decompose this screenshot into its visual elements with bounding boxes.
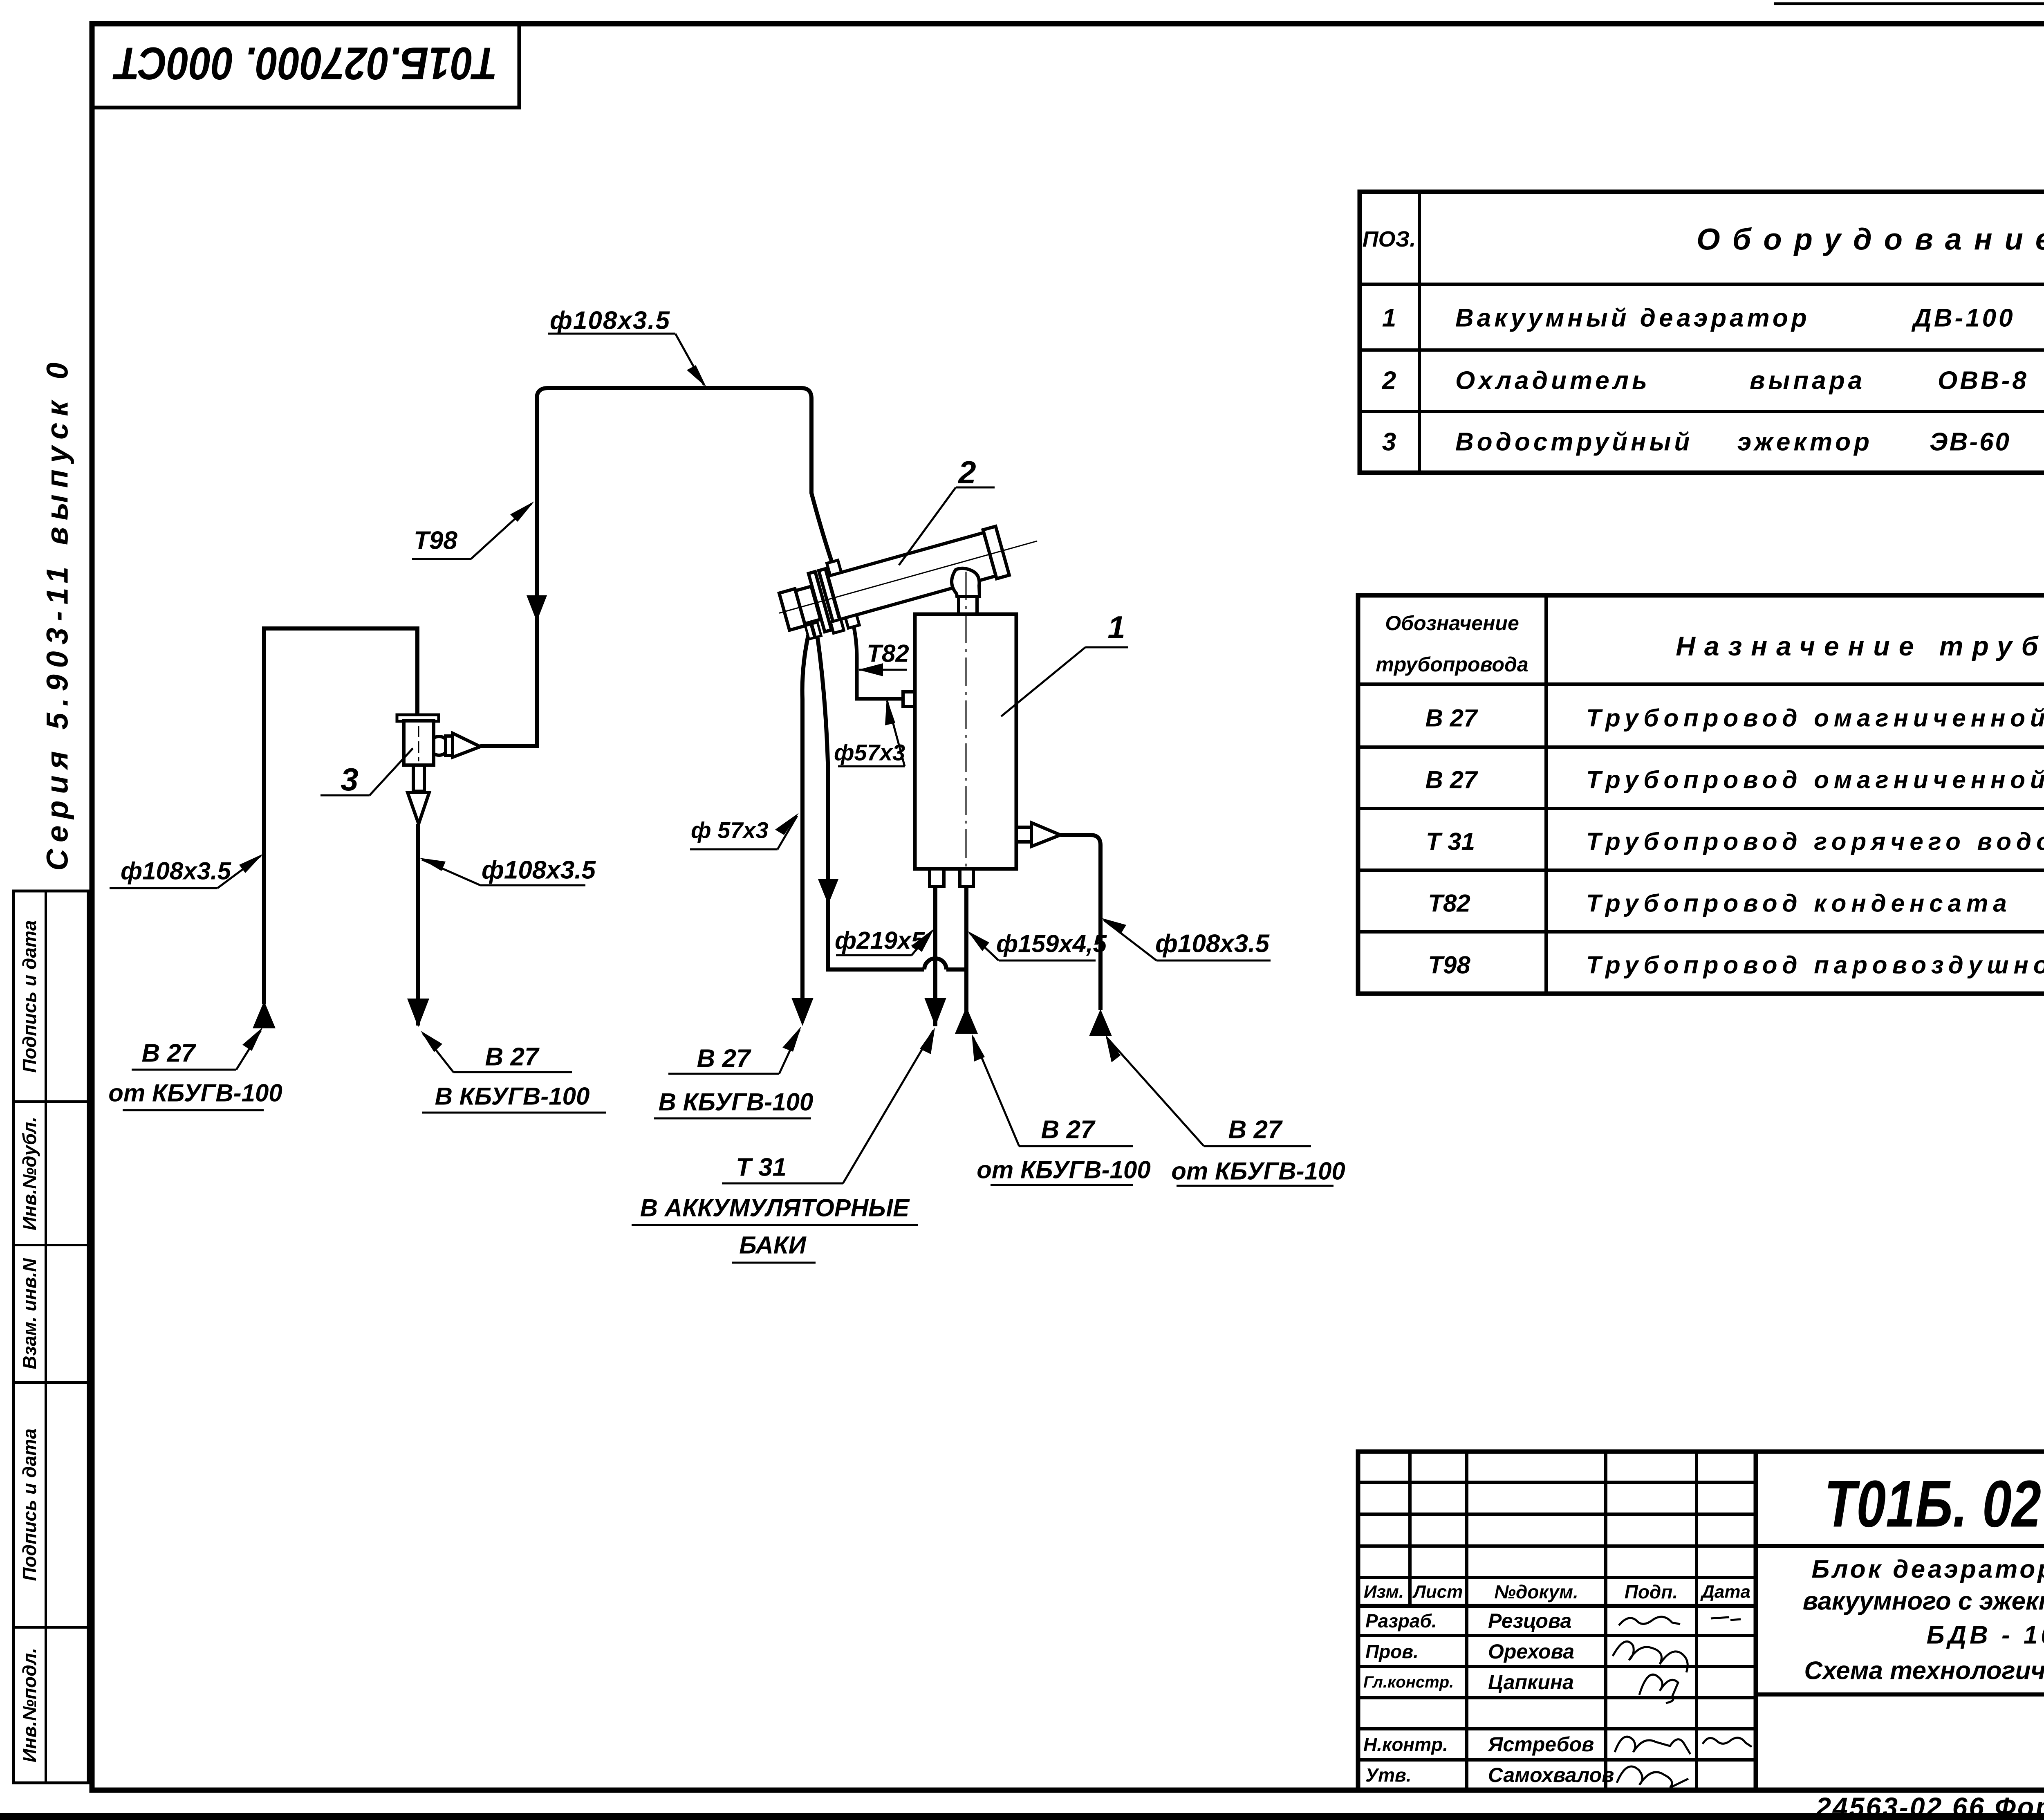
- cooler U2 bottom stub 2 (T82): [845, 615, 859, 628]
- arrow up flow B27 inlet: [253, 1001, 276, 1028]
- svg-text:вакуумного с эжектором: вакуумного с эжектором: [1803, 1587, 2044, 1616]
- svg-text:Трубопровод паровоздушной с: Трубопровод паровоздушной смеси: [1586, 952, 2044, 979]
- svg-text:В КБУГВ-100: В КБУГВ-100: [435, 1083, 590, 1110]
- signature n kontr: [1615, 1737, 1690, 1754]
- svg-text:Резцова: Резцова: [1488, 1609, 1571, 1632]
- svg-text:Трубопровод горячего водосна: Трубопровод горячего водоснабжения: [1586, 828, 2044, 855]
- svg-text:Разраб.: Разраб.: [1365, 1610, 1437, 1631]
- svg-text:ф219x5: ф219x5: [835, 927, 926, 954]
- arrow up flow f159: [955, 1007, 978, 1034]
- svg-text:Блок деаэратора: Блок деаэратора: [1811, 1555, 2044, 1584]
- deaerator U1 bottom stub right: [960, 869, 973, 886]
- svg-text:Т82: Т82: [1428, 890, 1470, 917]
- wire B27 vessel bottom right pipe (f159x4.5): [964, 886, 968, 1027]
- svg-text:Подпись и дата: Подпись и дата: [19, 1429, 40, 1581]
- svg-text:1: 1: [1107, 609, 1125, 645]
- wire f57x3 cooler outlet joining f159 line (line x=2026): [818, 638, 924, 969]
- deaerator U1 centerline dash-dot: [966, 572, 967, 885]
- svg-text:ф 57x3: ф 57x3: [691, 817, 769, 843]
- svg-text:Дата: Дата: [1700, 1582, 1750, 1602]
- wire B27 cooler drain left (line x=1963): [802, 632, 809, 1004]
- svg-text:Оборудование: Оборудование: [1697, 222, 2044, 256]
- svg-text:Подп.: Подп.: [1625, 1581, 1678, 1602]
- cooler U2 group (rotated): [770, 507, 1046, 646]
- svg-text:от КБУГВ-100: от КБУГВ-100: [1171, 1158, 1345, 1185]
- svg-text:трубопровода: трубопровода: [1376, 653, 1528, 676]
- svg-text:Т98: Т98: [1428, 952, 1470, 979]
- svg-text:В 27: В 27: [142, 1039, 196, 1068]
- arrow down flow mid f57 line: [818, 879, 838, 904]
- svg-text:от КБУГВ-100: от КБУГВ-100: [108, 1079, 282, 1107]
- deaerator U1 vessel: [915, 614, 1016, 869]
- svg-text:3: 3: [1382, 428, 1396, 456]
- svg-text:Водоструйный: Водоструйный: [1455, 428, 1693, 456]
- svg-text:3: 3: [341, 761, 358, 797]
- svg-text:1: 1: [1382, 304, 1396, 332]
- wire T82 condensate from cooler to deaerator: [854, 628, 904, 699]
- deaerator U1 bottom stub left: [930, 869, 944, 886]
- svg-text:ПОЗ.: ПОЗ.: [1363, 227, 1416, 251]
- cooler U2 drain stub a: [805, 624, 815, 640]
- svg-text:эжектор: эжектор: [1737, 428, 1873, 456]
- ejector U3 body: [404, 721, 434, 765]
- svg-text:Обозначение: Обозначение: [1385, 612, 1519, 635]
- signature razrab: [1619, 1617, 1680, 1625]
- wire B27 inlet riser to ejector (line x=646): [264, 628, 417, 1004]
- wire B27 hot water outlet right (line x=2692): [1060, 835, 1100, 1010]
- ejector U3 centerline: [418, 726, 419, 761]
- svg-text:В АККУМУЛЯТОРНЫЕ: В АККУМУЛЯТОРНЫЕ: [640, 1194, 910, 1222]
- svg-text:Инв.№подл.: Инв.№подл.: [19, 1648, 40, 1762]
- svg-text:ф108x3.5: ф108x3.5: [482, 856, 596, 884]
- cooler U2 drain stub b: [812, 622, 821, 637]
- svg-text:В 27: В 27: [1425, 705, 1478, 732]
- svg-text:ф57x3: ф57x3: [834, 740, 905, 765]
- dash in data razrab: [1711, 1617, 1741, 1620]
- wire T31 vessel bottom left pipe (f219x5): [933, 886, 937, 1026]
- svg-text:Назначение трубопровода: Назначение трубопровода: [1676, 631, 2044, 661]
- arrow down flow ejector discharge: [407, 999, 429, 1027]
- svg-text:ф108x3.5: ф108x3.5: [550, 307, 670, 335]
- cooler U2 right end cap: [983, 526, 1009, 579]
- T82 fitting on vessel wall: [903, 692, 917, 707]
- cooler U2 top stub T98 inlet: [827, 560, 841, 575]
- top thin edge line: [1774, 2, 2044, 5]
- svg-text:2: 2: [957, 454, 976, 490]
- ejector U3 side ball port: [430, 736, 448, 755]
- svg-text:Т01Б.027000. 000СТ: Т01Б.027000. 000СТ: [112, 38, 498, 89]
- svg-text:2: 2: [1382, 367, 1396, 395]
- svg-text:Цапкина: Цапкина: [1488, 1671, 1574, 1694]
- deaerator U1 right outlet cone: [1031, 823, 1060, 846]
- arrow down flow T98 mid: [527, 595, 547, 622]
- title block verticals left part: [1408, 1452, 1412, 1606]
- cooler U2 main shell: [828, 533, 996, 619]
- svg-text:Н.контр.: Н.контр.: [1363, 1734, 1448, 1755]
- svg-text:Т98: Т98: [414, 527, 457, 555]
- svg-text:ДВ-100: ДВ-100: [1911, 304, 2015, 332]
- svg-text:В 27: В 27: [697, 1045, 751, 1073]
- cooler U2 flange plate 2: [819, 569, 842, 629]
- cooler U2 flange plate 1: [809, 572, 831, 632]
- svg-text:Изм.: Изм.: [1364, 1582, 1404, 1602]
- ejector U3 side cylinder: [446, 736, 453, 756]
- equipment table: [1360, 192, 2044, 473]
- signature gl konstr: [1639, 1674, 1678, 1703]
- svg-text:ОВВ-8: ОВВ-8: [1938, 367, 2029, 395]
- wire T98 from ejector to cooler (suction line): [480, 388, 832, 746]
- svg-text:№докум.: №докум.: [1494, 1581, 1578, 1602]
- cooler U2 neck left: [796, 586, 820, 624]
- title block horizontals left part: [1358, 1481, 1756, 1484]
- date scribble n kontr: [1703, 1738, 1752, 1747]
- title block outer: [1358, 1452, 2044, 1790]
- arrow down flow cooler drain: [791, 998, 814, 1026]
- svg-text:Т 31: Т 31: [736, 1153, 787, 1182]
- cooler U2 left end cap: [779, 589, 805, 630]
- svg-text:БДВ - 100: БДВ - 100: [1927, 1621, 2044, 1649]
- svg-text:Серия 5.903-11 выпуск 0: Серия 5.903-11 выпуск 0: [40, 356, 74, 871]
- svg-text:Т01Б. 027000. 000СТ: Т01Б. 027000. 000СТ: [1824, 1467, 2044, 1541]
- svg-text:от КБУГВ-100: от КБУГВ-100: [977, 1156, 1150, 1184]
- svg-text:24563-02 66 Формат А3: 24563-02 66 Формат А3: [1815, 1792, 2044, 1820]
- bottom scan edge black bar: [0, 1813, 2044, 1820]
- svg-text:БАКИ: БАКИ: [739, 1232, 807, 1259]
- elbow from cooler U2 to deaerator: [952, 568, 979, 597]
- svg-text:выпара: выпара: [1750, 367, 1865, 395]
- svg-text:Орехова: Орехова: [1488, 1640, 1574, 1663]
- inverted stamp box top-left: [92, 24, 519, 108]
- svg-text:Охладитель: Охладитель: [1455, 367, 1650, 395]
- signature utv: [1617, 1766, 1688, 1788]
- svg-text:В КБУГВ-100: В КБУГВ-100: [659, 1088, 814, 1116]
- svg-text:Трубопровод конденсата: Трубопровод конденсата: [1586, 890, 2012, 917]
- deaerator nozzle neck: [959, 596, 977, 614]
- svg-text:Самохвалов: Самохвалов: [1488, 1764, 1614, 1786]
- svg-text:В 27: В 27: [1228, 1116, 1283, 1144]
- ejector U3 suction cone: [453, 733, 480, 757]
- svg-text:Взам. инв.N: Взам. инв.N: [19, 1258, 40, 1369]
- pipes table: [1358, 595, 2044, 994]
- svg-text:Трубопровод омагниченной вод: Трубопровод омагниченной воды: [1586, 766, 2044, 794]
- svg-text:Утв.: Утв.: [1365, 1764, 1412, 1786]
- deaerator U1 right outlet stub: [1016, 827, 1031, 842]
- cooler U2 bottom stub 1: [831, 619, 844, 633]
- svg-text:Схема технологическая: Схема технологическая: [1804, 1657, 2044, 1685]
- svg-text:В 27: В 27: [1041, 1116, 1096, 1144]
- svg-text:В 27: В 27: [485, 1043, 540, 1071]
- svg-text:Подпись и дата: Подпись и дата: [19, 920, 40, 1073]
- ejector U3 inlet flange: [397, 715, 439, 721]
- svg-text:ф159x4,5: ф159x4,5: [996, 930, 1107, 958]
- svg-text:Ястребов: Ястребов: [1487, 1733, 1594, 1756]
- svg-text:Гл.констр.: Гл.констр.: [1363, 1673, 1454, 1691]
- svg-text:Пров.: Пров.: [1365, 1641, 1419, 1662]
- svg-text:Т 31: Т 31: [1426, 828, 1475, 855]
- svg-text:ф108x3.5: ф108x3.5: [121, 857, 232, 885]
- arrow up flow right outlet: [1089, 1009, 1112, 1036]
- pipe hop over T31 line: [924, 958, 946, 969]
- svg-text:Т82: Т82: [867, 640, 909, 667]
- ejector U3 bottom neck: [413, 765, 424, 791]
- title block right part cells: [1756, 1544, 2044, 1548]
- ejector U3 diffuser cone: [408, 792, 429, 824]
- signature prov: [1613, 1641, 1688, 1672]
- left margin cells block: [13, 891, 88, 1783]
- wire continuation to f159 junction: [946, 967, 966, 972]
- wire B27 ejector discharge down (line x=1023): [416, 824, 420, 1026]
- svg-text:Вакуумный деаэратор: Вакуумный деаэратор: [1455, 304, 1810, 332]
- svg-text:Лист: Лист: [1412, 1582, 1463, 1602]
- cooler U2 axis centerline: [779, 541, 1037, 613]
- svg-text:В 27: В 27: [1425, 766, 1478, 794]
- svg-text:Трубопровод омагниченной вод: Трубопровод омагниченной воды: [1586, 705, 2044, 732]
- svg-text:ф108x3.5: ф108x3.5: [1155, 930, 1270, 958]
- svg-text:Инв.№дубл.: Инв.№дубл.: [19, 1117, 40, 1230]
- arrow down flow T31: [924, 998, 946, 1026]
- svg-text:ЭВ-60: ЭВ-60: [1930, 428, 2011, 456]
